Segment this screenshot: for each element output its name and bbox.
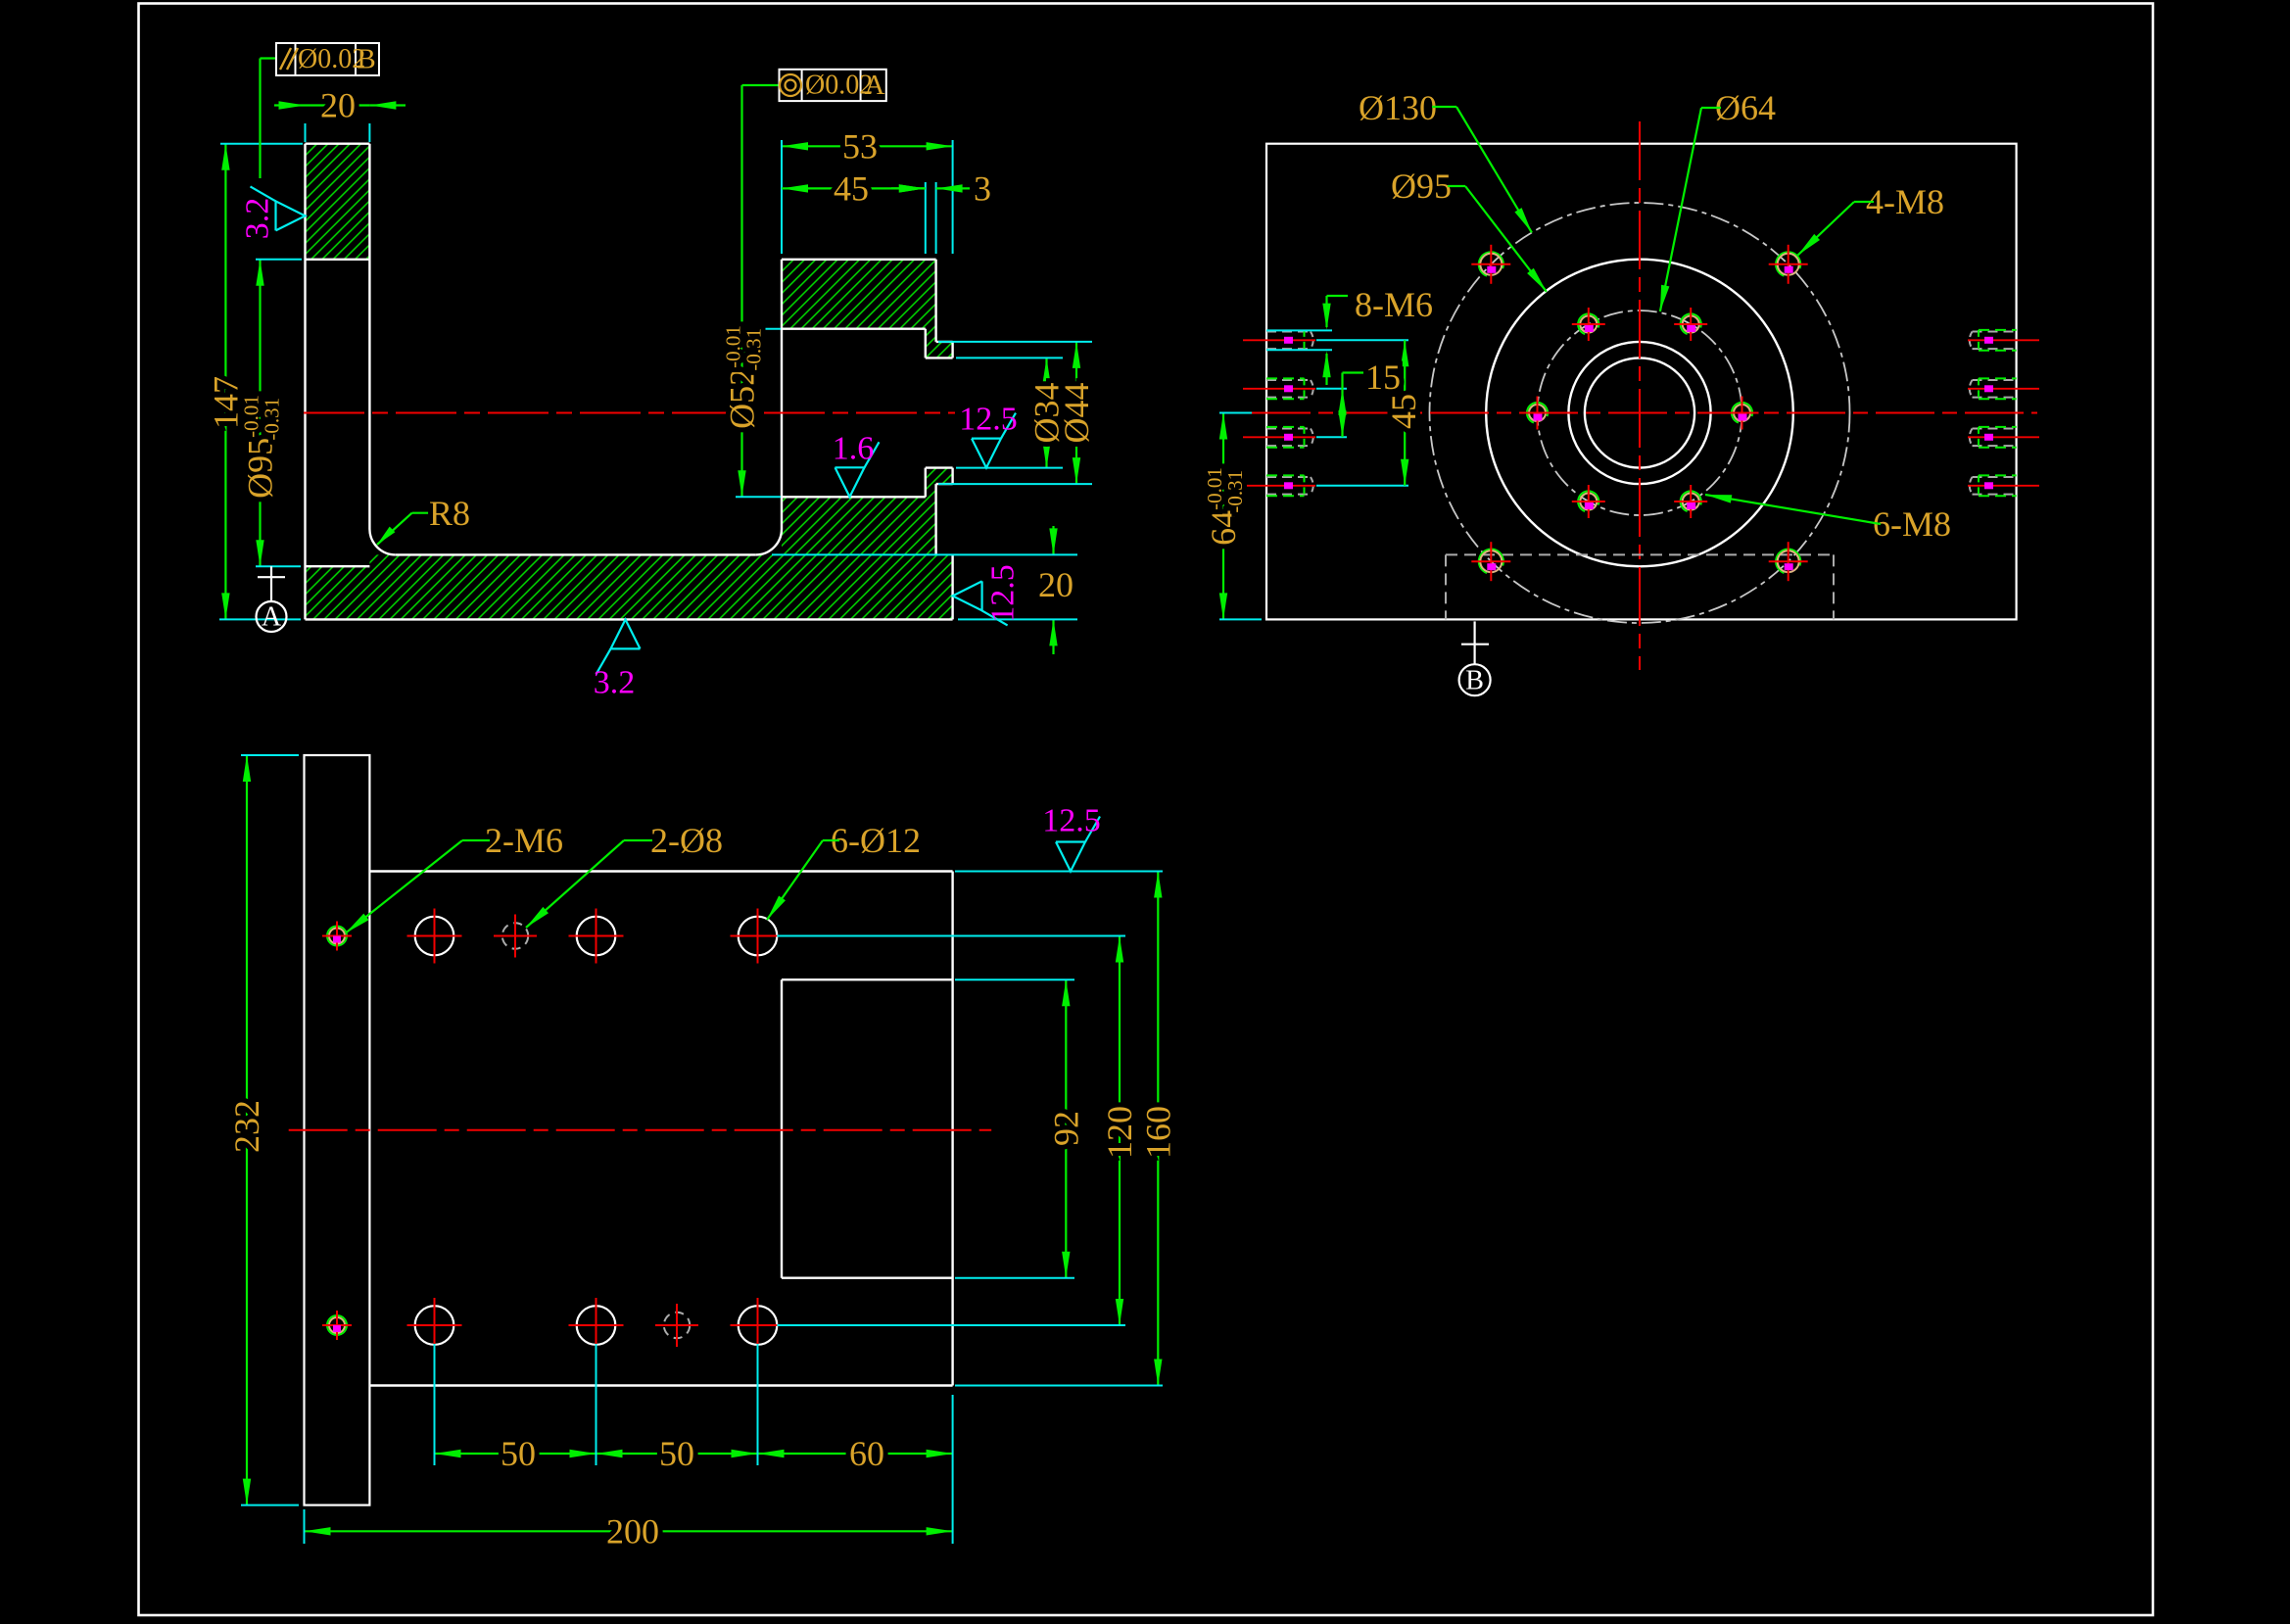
- svg-text:6-M8: 6-M8: [1873, 504, 1951, 544]
- svg-text:2-M6: 2-M6: [485, 821, 563, 860]
- svg-text:B: B: [357, 44, 375, 75]
- svg-text:60: 60: [849, 1434, 884, 1473]
- svg-text:12.5: 12.5: [1042, 803, 1101, 839]
- svg-text:6-Ø12: 6-Ø12: [831, 821, 921, 860]
- svg-text:A: A: [865, 70, 885, 101]
- svg-text:160: 160: [1138, 1106, 1177, 1159]
- svg-text:Ø52-0.01-0.31: Ø52-0.01-0.31: [722, 325, 766, 429]
- svg-text:232: 232: [227, 1100, 266, 1153]
- svg-text:Ø0.02: Ø0.02: [805, 71, 873, 101]
- svg-text:A: A: [262, 602, 282, 633]
- svg-text:45: 45: [1384, 394, 1423, 429]
- svg-text:2-Ø8: 2-Ø8: [650, 821, 723, 860]
- svg-text:3: 3: [974, 168, 991, 208]
- svg-text:Ø95-0.01-0.31: Ø95-0.01-0.31: [240, 395, 284, 499]
- svg-text:1.6: 1.6: [833, 431, 875, 467]
- svg-text:Ø130: Ø130: [1359, 88, 1437, 127]
- svg-text:Ø64: Ø64: [1715, 88, 1776, 127]
- svg-text:200: 200: [606, 1511, 659, 1551]
- svg-text:15: 15: [1365, 358, 1401, 397]
- svg-text:3.2: 3.2: [240, 198, 276, 240]
- svg-text:20: 20: [320, 86, 356, 125]
- svg-text:12.5: 12.5: [985, 564, 1022, 623]
- svg-text:B: B: [1465, 666, 1484, 696]
- svg-text:3.2: 3.2: [594, 665, 636, 701]
- svg-text:120: 120: [1100, 1106, 1139, 1159]
- svg-text:12.5: 12.5: [959, 402, 1018, 438]
- svg-text:92: 92: [1046, 1111, 1085, 1146]
- svg-text:4-M8: 4-M8: [1866, 182, 1944, 221]
- svg-text:50: 50: [501, 1434, 536, 1473]
- svg-text:Ø0.02: Ø0.02: [298, 44, 365, 74]
- svg-text:8-M6: 8-M6: [1355, 285, 1433, 324]
- svg-text:64-0.01-0.31: 64-0.01-0.31: [1203, 467, 1247, 546]
- svg-text:Ø95: Ø95: [1391, 167, 1452, 206]
- svg-text:20: 20: [1038, 565, 1073, 604]
- svg-text:Ø44: Ø44: [1057, 383, 1096, 444]
- svg-text:50: 50: [659, 1434, 694, 1473]
- svg-text:45: 45: [834, 168, 869, 208]
- svg-text:R8: R8: [429, 494, 470, 533]
- svg-text:53: 53: [842, 126, 878, 166]
